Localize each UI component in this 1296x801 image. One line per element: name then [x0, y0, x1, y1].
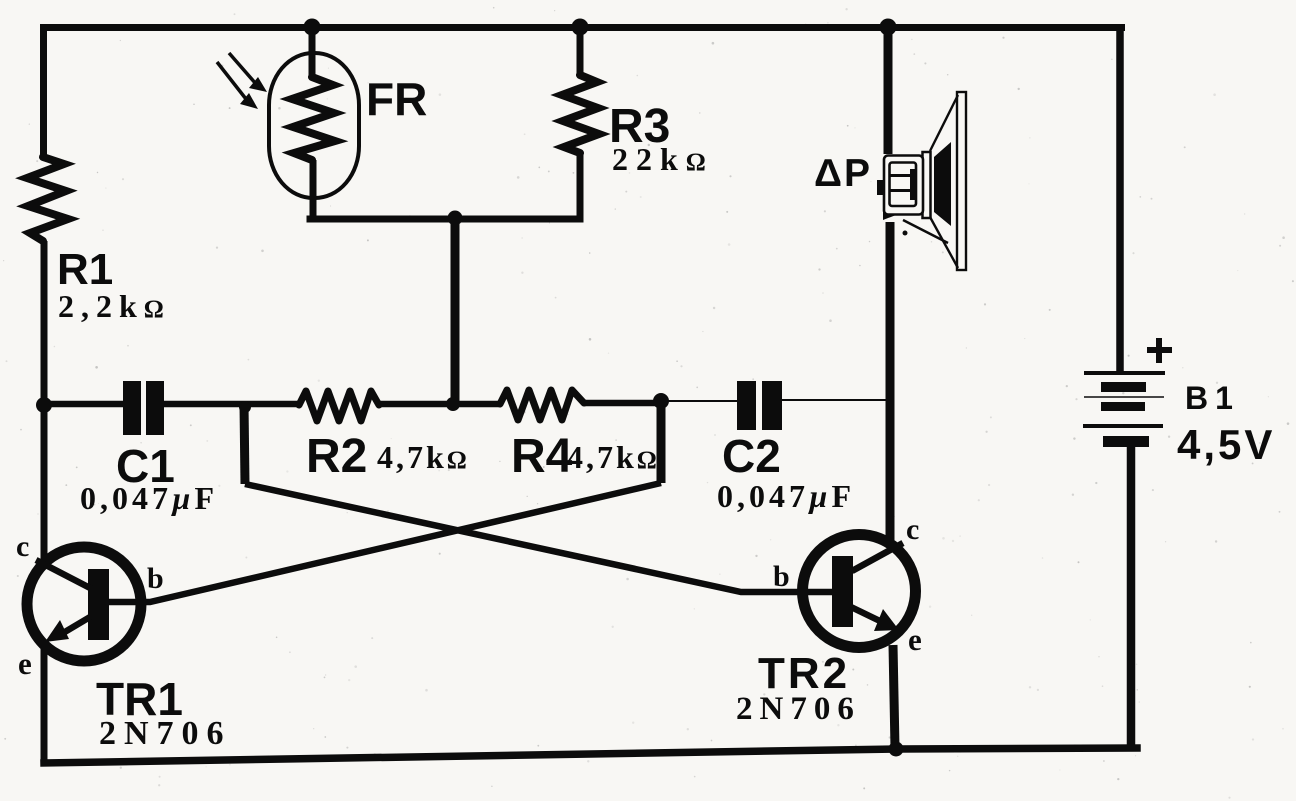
wire FR drop — [309, 26, 316, 77]
node center — [446, 397, 460, 411]
svg-text:C2: C2 — [722, 430, 781, 482]
svg-text:B1: B1 — [1185, 380, 1240, 416]
svg-text:R1: R1 — [57, 245, 113, 294]
wire R2 to R4 — [379, 401, 500, 408]
wire TR2 base cross link — [245, 484, 836, 592]
svg-text:ΔP: ΔP — [814, 152, 872, 195]
node top-FR — [304, 19, 321, 36]
svg-text:2N706: 2N706 — [99, 715, 232, 752]
wire C2 to speaker rail (thin) — [782, 399, 890, 401]
wire node to C2 (thin) — [661, 400, 737, 402]
node R4 right — [653, 393, 669, 409]
node top-R3 — [572, 19, 589, 36]
wire C1 to R2 — [164, 401, 299, 408]
node mid-left — [36, 397, 52, 413]
svg-text:c: c — [16, 530, 29, 563]
transistor TR1 — [16, 530, 232, 752]
wire FR-R3 bottom link — [310, 216, 580, 223]
svg-text:R4: R4 — [511, 430, 573, 483]
wire top rail — [40, 24, 1125, 31]
svg-text:2N706: 2N706 — [736, 691, 861, 727]
svg-text:0,047µF: 0,047µF — [80, 480, 218, 516]
wire R4 to node — [584, 400, 661, 407]
wire speaker rail lower — [890, 222, 895, 748]
wire right rail lower — [1127, 447, 1136, 748]
svg-text:c: c — [906, 513, 919, 546]
photoresistor FR — [269, 53, 427, 198]
speaker AP — [814, 92, 966, 270]
svg-text:e: e — [18, 646, 32, 681]
wire cross left drop — [239, 401, 251, 484]
battery B1 — [1083, 338, 1275, 468]
svg-text:e: e — [908, 622, 922, 657]
wire bottom rail — [44, 748, 1137, 763]
wire mid-left — [44, 401, 123, 408]
svg-text:4,5V: 4,5V — [1177, 421, 1275, 468]
svg-text:b: b — [147, 562, 164, 595]
wire R3 drop — [577, 26, 584, 75]
capacitor C1 — [80, 381, 218, 516]
resistor R2 — [299, 391, 470, 483]
node bottom rail — [889, 742, 904, 757]
node top-speaker — [880, 19, 897, 36]
light arrow 2 — [217, 62, 258, 109]
wire FR bottom — [310, 160, 317, 219]
svg-text:FR: FR — [366, 73, 427, 125]
wire R3 bottom — [577, 153, 584, 222]
resistor R1 — [27, 157, 171, 324]
wire right rail upper — [1116, 24, 1124, 372]
light arrow 1 — [229, 53, 267, 92]
wire left rail upper — [40, 24, 47, 157]
node FR-R3 link — [448, 211, 463, 226]
svg-text:0,047µF: 0,047µF — [717, 478, 855, 514]
resistor R4 — [500, 390, 660, 483]
wire TR1 base cross link — [98, 483, 661, 602]
wire cross right drop — [657, 401, 666, 483]
svg-text:R2: R2 — [306, 430, 367, 483]
svg-text:b: b — [773, 560, 790, 593]
wire left rail lower — [41, 241, 48, 763]
wire speaker rail upper — [884, 26, 893, 154]
wire center drop — [451, 219, 460, 404]
transistor TR2 — [736, 513, 922, 727]
resistor R3 — [562, 75, 714, 177]
capacitor C2 — [717, 381, 855, 514]
